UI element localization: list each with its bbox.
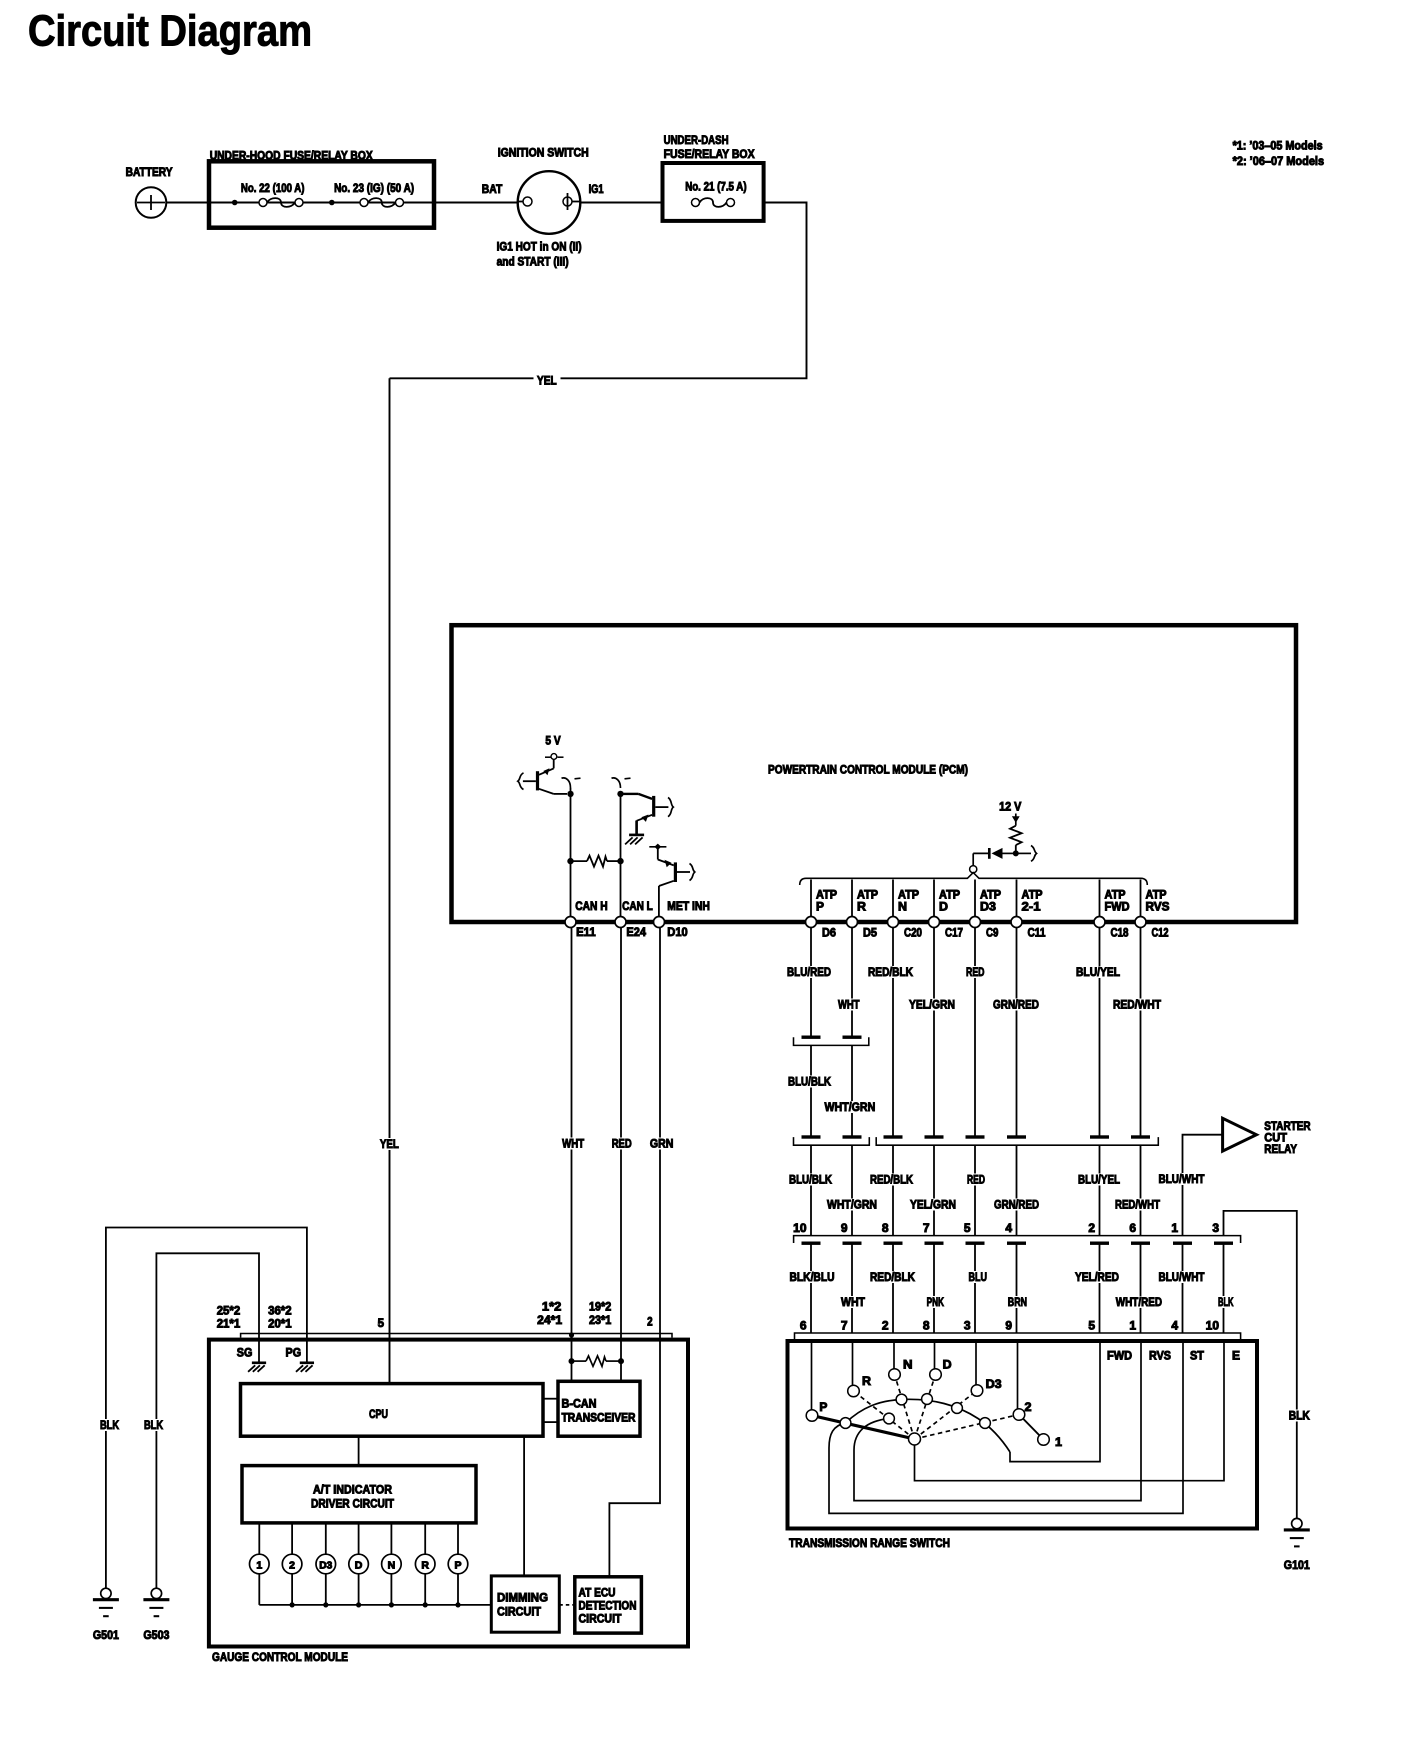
svg-text:C11: C11 <box>1028 926 1046 940</box>
svg-text:G501: G501 <box>93 1628 119 1642</box>
resistor (CAN termination, gauge side) <box>569 1356 625 1366</box>
svg-text:CIRCUIT: CIRCUIT <box>579 1612 623 1626</box>
ground G501 <box>93 1588 119 1642</box>
svg-text:D: D <box>943 1358 952 1372</box>
wire battery to under-hood fuse box <box>166 202 209 204</box>
A/T indicator driver circuit box <box>242 1466 476 1523</box>
wire RED (C9 down) <box>964 928 987 1136</box>
gauge control module box <box>209 1334 688 1665</box>
svg-text:N: N <box>388 1559 396 1571</box>
contact R <box>848 1385 860 1397</box>
wire BLU/YEL (C18 down) <box>1074 928 1122 1136</box>
svg-text:E: E <box>1232 1349 1240 1363</box>
svg-text:23*1: 23*1 <box>589 1313 611 1327</box>
svg-text:C17: C17 <box>945 926 963 940</box>
pin E24 (CAN L) <box>615 899 653 939</box>
svg-text:20*1: 20*1 <box>268 1317 292 1331</box>
node: WHT pin entry <box>569 1332 574 1337</box>
contact D <box>930 1369 942 1381</box>
under-hood fuse/relay box <box>209 149 434 228</box>
svg-text:3: 3 <box>1212 1221 1219 1235</box>
svg-text:WHT/GRN: WHT/GRN <box>827 1198 877 1212</box>
wire WHT: E11 to gauge module <box>560 928 586 1382</box>
dashed link dimming to AT ECU <box>559 1604 575 1606</box>
svg-text:BLU/YEL: BLU/YEL <box>1076 965 1120 979</box>
svg-text:BLU/RED: BLU/RED <box>787 965 831 979</box>
svg-text:5 V: 5 V <box>545 734 560 748</box>
wire RED/WHT (C12 down) <box>1111 928 1163 1136</box>
fuse No.22 (100 A) <box>241 181 305 207</box>
wire: R column into switch <box>852 1341 854 1385</box>
svg-text:24*1: 24*1 <box>537 1313 562 1327</box>
svg-text:C20: C20 <box>904 926 922 940</box>
svg-text:PG: PG <box>286 1346 302 1360</box>
wire BRN (pin 4 to 9) <box>1006 1243 1029 1333</box>
svg-text:RED/BLK: RED/BLK <box>870 1270 915 1284</box>
pin labels 1*2/24*1 (CAN H) <box>537 1300 562 1328</box>
wire: D column into switch <box>934 1341 936 1369</box>
svg-text:YEL/RED: YEL/RED <box>1075 1270 1119 1284</box>
wire CAN L internal (to pin E24) <box>620 794 622 917</box>
svg-text:P: P <box>819 1400 827 1414</box>
svg-text:YEL: YEL <box>537 374 557 388</box>
svg-text:BLU/YEL: BLU/YEL <box>1078 1173 1120 1187</box>
svg-text:C9: C9 <box>986 926 999 940</box>
svg-text:BLK: BLK <box>1289 1409 1310 1423</box>
svg-text:*2: ’06–07 Models: *2: ’06–07 Models <box>1233 154 1325 168</box>
svg-text:1: 1 <box>256 1559 262 1571</box>
svg-text:2: 2 <box>289 1559 295 1571</box>
under-dash fuse/relay box <box>663 133 764 221</box>
svg-text:RED: RED <box>967 1173 985 1187</box>
wire YEL/GRN (C17 down) <box>907 928 957 1136</box>
svg-text:BLU: BLU <box>969 1270 988 1284</box>
wire WHT/GRN (to 10P connector pin 9) <box>825 1145 879 1235</box>
svg-text:RED: RED <box>612 1137 632 1151</box>
svg-text:MET INH: MET INH <box>667 899 710 913</box>
svg-text:D: D <box>939 900 948 914</box>
wire GRN/RED (to 10P connector pin 4) <box>992 1145 1041 1235</box>
pin numbers (connector C-upper) <box>793 1221 1219 1235</box>
wire stub + pin C18 (ATP FWD) <box>1094 880 1130 940</box>
svg-text:BLU/WHT: BLU/WHT <box>1159 1172 1206 1186</box>
svg-text:7: 7 <box>923 1221 930 1235</box>
wire bus (indicator commons to dimming circuit) <box>259 1602 491 1607</box>
net labels FWD RVS ST E <box>1107 1349 1240 1363</box>
svg-text:9: 9 <box>1005 1319 1012 1333</box>
wire CPU to dimming circuit <box>523 1436 525 1576</box>
wire: E column to rotor pivot <box>915 1341 1225 1481</box>
svg-text:R: R <box>862 1374 871 1388</box>
wire GRN/RED (C11 down) <box>991 928 1041 1136</box>
pin labels 25*2/21*1 (SG) <box>217 1304 241 1331</box>
svg-text:No. 23 (IG) (50 A): No. 23 (IG) (50 A) <box>334 181 414 195</box>
svg-text:DETECTION: DETECTION <box>579 1599 637 1613</box>
junction node (fuse 23 feed) <box>329 200 335 206</box>
transistor Q2 (CAN L, NPN to ground) <box>612 778 674 834</box>
svg-text:7: 7 <box>841 1319 848 1333</box>
svg-text:1: 1 <box>1055 1435 1062 1449</box>
svg-text:UNDER-DASH: UNDER-DASH <box>664 133 729 147</box>
wire WHT (D5 down) <box>836 928 862 1036</box>
fuse No.21 (7.5 A) <box>685 180 746 207</box>
dashed selector lines (pivot to R N D D3 2) <box>854 1375 1020 1440</box>
wire stub + pin C9 (ATP D3) <box>970 880 1002 940</box>
wire CPU to A/T indicator driver <box>358 1436 360 1465</box>
AT ECU detection circuit box <box>575 1577 642 1633</box>
indicator lamp D3 <box>316 1523 336 1605</box>
svg-text:CAN H: CAN H <box>575 899 607 913</box>
svg-text:RELAY: RELAY <box>1264 1142 1297 1156</box>
svg-text:8: 8 <box>882 1221 889 1235</box>
wire WHT (pin 9 to 7) <box>839 1243 867 1333</box>
svg-text:E11: E11 <box>576 925 596 939</box>
svg-text:YEL/GRN: YEL/GRN <box>909 998 955 1012</box>
wire RED/BLK (C20 down) <box>866 928 915 1136</box>
transmission range switch box <box>788 1341 1258 1550</box>
battery <box>126 165 173 218</box>
connector (2P in-line, upper) <box>794 1036 869 1046</box>
node: Q1 collector to CAN H line <box>567 791 573 797</box>
svg-text:DIMMING: DIMMING <box>497 1591 548 1605</box>
svg-text:*1: ’03–05 Models: *1: ’03–05 Models <box>1233 139 1323 153</box>
svg-text:19*2: 19*2 <box>589 1300 611 1314</box>
wire RED (to 10P connector pin 5) <box>965 1145 987 1235</box>
svg-text:AT ECU: AT ECU <box>579 1586 616 1600</box>
contact rotor d <box>922 1394 933 1405</box>
svg-text:BLK: BLK <box>144 1418 163 1432</box>
svg-text:D3: D3 <box>319 1559 332 1571</box>
svg-text:FUSE/RELAY BOX: FUSE/RELAY BOX <box>664 147 755 161</box>
svg-text:2: 2 <box>1025 1400 1032 1414</box>
svg-text:D3: D3 <box>986 1377 1002 1391</box>
svg-text:2-1: 2-1 <box>1022 900 1041 914</box>
contact D3 <box>971 1385 983 1397</box>
PCM box: powertrain control module <box>452 625 1297 922</box>
contact labels P R N D D3 2 1 <box>819 1358 1062 1450</box>
wire YEL/GRN (to 10P connector pin 7) <box>908 1145 958 1235</box>
contact 2 <box>1013 1409 1025 1421</box>
svg-text:3: 3 <box>964 1319 971 1333</box>
svg-text:CAN L: CAN L <box>622 899 653 913</box>
svg-text:BLU/BLK: BLU/BLK <box>789 1173 832 1187</box>
contact rotor e <box>952 1403 963 1414</box>
wire: RVS column to contact (rotor) <box>854 1341 1141 1501</box>
svg-text:No. 21 (7.5 A): No. 21 (7.5 A) <box>685 180 746 194</box>
connector (2P in-line, lower) <box>794 1135 870 1145</box>
svg-text:D3: D3 <box>980 900 996 914</box>
svg-text:FWD: FWD <box>1107 1349 1132 1363</box>
indicator lamp R <box>415 1523 435 1605</box>
svg-text:PNK: PNK <box>927 1295 945 1309</box>
svg-text:5: 5 <box>1088 1319 1095 1333</box>
dimming circuit box <box>491 1576 559 1632</box>
wire BLK (pin 3 to 10) <box>1216 1243 1236 1333</box>
pin labels 19*2/23*1 (CAN L) <box>589 1300 611 1328</box>
wire label YEL (vertical run) <box>378 1137 401 1151</box>
svg-text:YEL/GRN: YEL/GRN <box>910 1198 956 1212</box>
svg-text:DRIVER CIRCUIT: DRIVER CIRCUIT <box>311 1497 395 1511</box>
svg-text:WHT/RED: WHT/RED <box>1116 1295 1162 1309</box>
contact pivot (common) <box>909 1433 921 1445</box>
svg-text:10: 10 <box>793 1221 807 1235</box>
svg-text:2: 2 <box>647 1315 653 1329</box>
wire stub + pin C12 (ATP RVS) <box>1135 880 1170 940</box>
svg-text:BLK: BLK <box>1218 1295 1234 1309</box>
pin label 5 (YEL) <box>378 1316 385 1330</box>
svg-text:RED: RED <box>966 965 985 979</box>
svg-text:5: 5 <box>964 1221 971 1235</box>
svg-text:BRN: BRN <box>1008 1295 1027 1309</box>
pin PG + ground <box>286 1346 315 1372</box>
svg-text:IG1: IG1 <box>589 182 604 196</box>
wires CPU to B-CAN <box>543 1399 558 1422</box>
wire BLK/BLU (pin 10 to 6) <box>788 1243 837 1333</box>
svg-text:B-CAN: B-CAN <box>562 1397 597 1411</box>
wire (pin 3 branch to G101 trunk) <box>1224 1211 1297 1519</box>
svg-text:8: 8 <box>923 1319 930 1333</box>
wire BLU/YEL (to 10P connector pin 2) <box>1076 1145 1122 1235</box>
wire: D3 column into switch <box>975 1341 977 1385</box>
wire BLK: G501 to PG <box>98 1228 307 1589</box>
ignition switch <box>497 146 589 269</box>
svg-text:CIRCUIT: CIRCUIT <box>497 1605 542 1619</box>
indicator lamp 1 <box>249 1523 269 1605</box>
wire: ST column to contact (rotor) <box>829 1341 1183 1513</box>
connector C-lower (10P, switch) <box>795 1333 1241 1339</box>
svg-text:BAT: BAT <box>482 182 503 196</box>
svg-text:21*1: 21*1 <box>217 1317 241 1331</box>
pin numbers (connector C-lower) <box>800 1319 1220 1333</box>
svg-text:6: 6 <box>1129 1221 1136 1235</box>
wire BLU/RED (D6 down) <box>785 928 833 1036</box>
svg-text:WHT: WHT <box>838 998 860 1012</box>
svg-text:GRN/RED: GRN/RED <box>993 998 1039 1012</box>
pin D10 (MET INH) <box>654 899 710 939</box>
svg-text:P: P <box>454 1559 461 1571</box>
svg-text:P: P <box>816 900 824 914</box>
resistor (CAN bus termination) <box>567 856 623 867</box>
wire WHT/RED (pin 6 to 1) <box>1114 1243 1164 1333</box>
svg-text:TRANSCEIVER: TRANSCEIVER <box>562 1411 636 1425</box>
svg-text:BLU/BLK: BLU/BLK <box>788 1075 831 1089</box>
svg-text:RED/BLK: RED/BLK <box>870 1173 913 1187</box>
svg-text:GRN: GRN <box>650 1137 674 1151</box>
wire GRN: D10 to gauge module <box>609 928 675 1577</box>
svg-text:36*2: 36*2 <box>268 1304 292 1318</box>
svg-text:6: 6 <box>800 1319 807 1333</box>
svg-text:RED/WHT: RED/WHT <box>1113 998 1162 1012</box>
ground (Q2 emitter) <box>625 835 644 845</box>
pin SG + ground <box>237 1346 266 1372</box>
12V supply <box>999 800 1021 826</box>
diode (ATP sense) <box>973 846 1036 866</box>
wire: N column into switch <box>893 1341 895 1369</box>
svg-text:C12: C12 <box>1152 926 1169 940</box>
wire BLK: G503 to SG <box>142 1253 259 1588</box>
svg-text:D: D <box>355 1559 363 1571</box>
wire stub + pin C17 (ATP D) <box>929 880 964 940</box>
indicator lamp N <box>382 1523 402 1605</box>
svg-text:4: 4 <box>1171 1319 1178 1333</box>
wire YEL: under-dash fuse to gauge control module pin 5 <box>390 203 807 1384</box>
pin labels 36*2/20*1 (PG) <box>268 1304 292 1331</box>
wire RED/BLK (to 10P connector pin 8) <box>868 1145 915 1235</box>
wire RED/WHT (to 10P connector pin 6) <box>1113 1145 1162 1235</box>
svg-text:WHT: WHT <box>562 1137 585 1151</box>
brace: ATP bus <box>800 873 1148 885</box>
ground G503 <box>143 1588 169 1642</box>
contact rotor b (RVS) <box>884 1413 895 1424</box>
wire: contact 2 to contact 1 <box>1019 1415 1044 1440</box>
svg-text:IG1 HOT in ON (II): IG1 HOT in ON (II) <box>497 240 582 254</box>
contact 1 <box>1038 1434 1050 1446</box>
svg-text:2: 2 <box>1088 1221 1095 1235</box>
node: ATP common <box>970 866 977 873</box>
wire inside under-hood box <box>211 202 432 204</box>
title <box>28 7 312 56</box>
wire fuse box to ignition switch (BAT) <box>434 182 518 203</box>
wire stub + pin D6 (ATP P) <box>806 880 838 940</box>
svg-text:RVS: RVS <box>1149 1349 1171 1363</box>
wire stub + pin C20 (ATP N) <box>888 880 923 940</box>
wire BLU/WHT (pin 1 to 4) <box>1157 1243 1207 1333</box>
svg-text:and START (III): and START (III) <box>497 255 569 269</box>
svg-text:ST: ST <box>1190 1349 1205 1363</box>
wire ignition switch to under-dash fuse box (IG1) <box>580 182 662 203</box>
svg-text:G503: G503 <box>143 1628 169 1642</box>
svg-text:D5: D5 <box>863 926 877 940</box>
CPU box <box>241 1384 544 1437</box>
svg-text:POWERTRAIN CONTROL MODULE (PCM: POWERTRAIN CONTROL MODULE (PCM) <box>768 763 968 777</box>
starter cut relay <box>1223 1118 1311 1156</box>
svg-text:1*2: 1*2 <box>542 1300 562 1314</box>
wire BLU/BLK (to 2P connector) <box>786 1045 833 1135</box>
wire BLU/BLK (to 10P connector pin 10) <box>787 1145 834 1235</box>
junction node (battery feed) <box>232 200 238 206</box>
svg-text:No. 22 (100 A): No. 22 (100 A) <box>241 181 305 195</box>
svg-text:WHT/GRN: WHT/GRN <box>825 1100 876 1114</box>
svg-text:BLK: BLK <box>100 1418 119 1432</box>
svg-text:5: 5 <box>378 1316 385 1330</box>
transistor Q1 (CAN H output, PNP) <box>518 760 567 794</box>
wire RED/BLK (pin 8 to 2) <box>868 1243 917 1333</box>
note: model years <box>1233 139 1325 169</box>
svg-text:SG: SG <box>237 1346 253 1360</box>
wire: P to pivot (selected position, thick) <box>812 1416 915 1440</box>
svg-text:GRN/RED: GRN/RED <box>994 1198 1039 1212</box>
wire stub + pin C11 (ATP 2-1) <box>1011 880 1046 940</box>
indicator lamp D <box>349 1523 369 1605</box>
contact rotor c <box>896 1394 907 1405</box>
connector C-upper (10P) <box>794 1236 1241 1245</box>
svg-text:25*2: 25*2 <box>217 1304 241 1318</box>
contact rotor a (ST) <box>840 1418 851 1429</box>
svg-text:TRANSMISSION RANGE SWITCH: TRANSMISSION RANGE SWITCH <box>789 1536 950 1550</box>
svg-text:2: 2 <box>882 1319 889 1333</box>
svg-text:GAUGE CONTROL MODULE: GAUGE CONTROL MODULE <box>212 1650 348 1664</box>
wire: FWD column to rotor arc end <box>1010 1341 1100 1462</box>
svg-text:R: R <box>857 900 866 914</box>
svg-text:FWD: FWD <box>1105 900 1130 914</box>
svg-text:G101: G101 <box>1284 1558 1310 1572</box>
svg-text:N: N <box>903 1358 913 1372</box>
pin E11 (CAN H) <box>565 899 608 939</box>
svg-text:BLU/WHT: BLU/WHT <box>1159 1270 1206 1284</box>
svg-text:RED/BLK: RED/BLK <box>868 965 913 979</box>
svg-text:BLK/BLU: BLK/BLU <box>790 1270 835 1284</box>
svg-text:12 V: 12 V <box>999 800 1021 814</box>
ground G101 <box>1284 1518 1310 1572</box>
contact P <box>806 1410 818 1422</box>
resistor (ATP pull-up) <box>1010 826 1022 854</box>
svg-text:BATTERY: BATTERY <box>126 165 173 179</box>
transistor Q3 (MET INH driver) <box>649 844 695 917</box>
contact rotor f <box>980 1418 991 1429</box>
svg-text:A/T INDICATOR: A/T INDICATOR <box>313 1483 392 1497</box>
contact N <box>889 1369 901 1381</box>
wire RED: E24 to gauge module <box>610 928 634 1382</box>
wire stub + pin D5 (ATP R) <box>847 880 879 940</box>
svg-text:Circuit Diagram: Circuit Diagram <box>28 7 312 56</box>
svg-text:1: 1 <box>1129 1319 1136 1333</box>
indicator lamp P <box>448 1523 468 1605</box>
indicator lamp 2 <box>282 1523 302 1605</box>
wire: P column into switch <box>811 1341 813 1410</box>
wire BLK to G101 label <box>1287 1409 1312 1423</box>
5V supply node <box>545 734 564 760</box>
svg-text:E24: E24 <box>626 925 646 939</box>
B-CAN transceiver box <box>558 1381 640 1436</box>
wire BLU/WHT (starter cut relay to connector) <box>1157 1135 1223 1236</box>
svg-text:RED/WHT: RED/WHT <box>1115 1198 1161 1212</box>
fuse No.23 (IG) (50 A) <box>334 181 414 207</box>
svg-text:D10: D10 <box>667 925 688 939</box>
svg-text:N: N <box>898 900 907 914</box>
svg-text:C18: C18 <box>1111 926 1129 940</box>
wire WHT/GRN (to 2P connector) <box>823 1045 878 1135</box>
pin label 2 (GRN) <box>647 1315 653 1329</box>
svg-text:R: R <box>421 1559 429 1571</box>
svg-text:4: 4 <box>1005 1221 1012 1235</box>
svg-text:D6: D6 <box>822 926 836 940</box>
svg-text:YEL: YEL <box>380 1137 399 1151</box>
wire BLU (pin 5 to 3) <box>967 1243 990 1333</box>
svg-text:RVS: RVS <box>1146 900 1170 914</box>
svg-text:9: 9 <box>841 1221 848 1235</box>
svg-text:IGNITION SWITCH: IGNITION SWITCH <box>498 146 589 160</box>
svg-text:CPU: CPU <box>369 1407 388 1421</box>
connector (6P in-line) <box>876 1135 1158 1145</box>
svg-text:10: 10 <box>1206 1319 1220 1333</box>
wire PNK (pin 7 to 8) <box>925 1243 946 1333</box>
svg-text:WHT: WHT <box>841 1295 866 1309</box>
wire: 2 column into switch <box>1017 1341 1019 1409</box>
rotor contact arc <box>846 1399 1011 1452</box>
wire YEL/RED (pin 2 to 5) <box>1073 1243 1121 1333</box>
svg-text:1: 1 <box>1171 1221 1178 1235</box>
wire CAN H internal (hook to pin E11) <box>562 778 581 917</box>
